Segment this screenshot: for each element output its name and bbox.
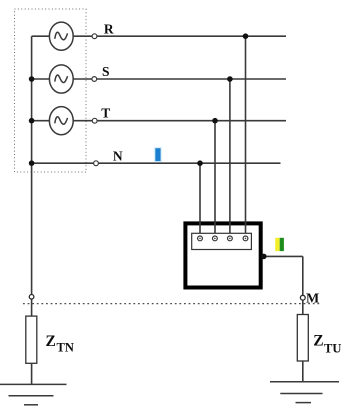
ground left xyxy=(0,384,67,404)
node circle left (bus to ZTN) xyxy=(29,295,34,300)
wire: neutral N line xyxy=(32,162,281,164)
svg-text:S: S xyxy=(102,64,110,79)
junction dot R drop xyxy=(243,33,249,39)
wire: drop from N to load terminal xyxy=(199,163,201,236)
wire: stub bus to source G3 xyxy=(32,120,50,122)
impedance ZTU xyxy=(297,315,308,362)
junction dot N drop xyxy=(197,160,203,166)
junction dot bus N xyxy=(29,160,35,166)
svg-text:Z: Z xyxy=(46,333,56,350)
wire: box output to M xyxy=(263,255,303,257)
terminal pin 2 xyxy=(213,236,218,241)
terminal circle on T xyxy=(92,118,97,123)
svg-text:T: T xyxy=(101,106,110,121)
wire: drop from S to load terminal xyxy=(229,79,231,236)
svg-text:TN: TN xyxy=(57,341,74,355)
wire: left vertical bus xyxy=(31,36,33,384)
wire: vertical down to impedance ZTU xyxy=(302,256,304,381)
junction dot bus T xyxy=(29,118,35,124)
terminal circle on N xyxy=(94,161,99,166)
impedance ZTN xyxy=(26,316,37,363)
wire: N drop inside box xyxy=(199,221,201,236)
dashed earth boundary line xyxy=(23,303,321,305)
wire: phase R line xyxy=(73,35,286,37)
wire: S drop inside box xyxy=(229,221,231,236)
wire: T drop inside box xyxy=(214,221,216,236)
svg-text:Z: Z xyxy=(313,333,323,350)
ac source G2 xyxy=(49,65,73,93)
junction dot T drop xyxy=(212,118,218,124)
terminal pin 3 xyxy=(228,236,233,241)
wire: R drop inside box xyxy=(245,221,247,236)
wire: stub bus to source G1 xyxy=(32,35,50,37)
node M circle xyxy=(300,295,305,300)
junction dot S drop xyxy=(227,76,233,82)
load box U1 xyxy=(185,223,260,287)
junction dot box output xyxy=(261,254,267,260)
source enclosure dotted box xyxy=(15,9,87,172)
load terminal strip xyxy=(192,233,252,249)
label ZTU xyxy=(313,333,341,356)
terminal circle on S xyxy=(92,77,97,82)
terminal pin 4 xyxy=(243,236,248,241)
yellow-green probe marker xyxy=(275,238,284,251)
svg-text:N: N xyxy=(113,148,123,163)
wire: phase S line xyxy=(73,78,286,80)
terminal pin 1 xyxy=(198,236,203,241)
wire: drop from T to load terminal xyxy=(214,121,216,236)
wire: drop from R to load terminal xyxy=(245,36,247,236)
ground right xyxy=(270,382,339,403)
wire: stub bus to source G2 xyxy=(32,78,50,80)
ac source G1 xyxy=(49,22,73,50)
label ZTN xyxy=(46,333,74,355)
svg-text:TU: TU xyxy=(324,341,341,355)
svg-text:M: M xyxy=(306,291,319,306)
svg-text:R: R xyxy=(104,22,114,37)
ac source G3 xyxy=(49,107,73,135)
junction dot bus S xyxy=(29,76,35,82)
blue current marker on N xyxy=(154,147,162,163)
wire: phase T line xyxy=(73,120,286,122)
terminal circle on R xyxy=(92,34,97,39)
